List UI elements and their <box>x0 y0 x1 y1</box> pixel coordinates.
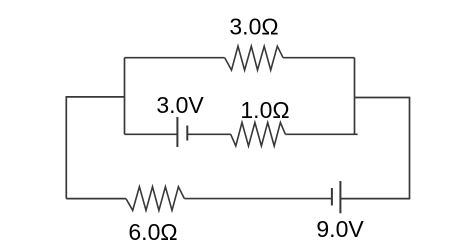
wire top branch right segment <box>283 57 354 59</box>
svg-text:1.0Ω: 1.0Ω <box>240 97 289 123</box>
svg-text:3.0V: 3.0V <box>156 92 204 118</box>
svg-text:9.0V: 9.0V <box>316 216 364 242</box>
wire middle branch center segment <box>187 133 230 135</box>
wire bottom left segment <box>66 198 126 200</box>
wire top branch left segment <box>125 57 225 59</box>
wire right stub to inner loop <box>355 97 411 99</box>
svg-text:6.0Ω: 6.0Ω <box>128 219 177 245</box>
wire left stub to inner loop <box>66 96 125 98</box>
battery B1 3.0V long plate <box>176 117 178 147</box>
resistor R-mid 1.0ohm zigzag <box>231 123 286 147</box>
wire middle branch left segment <box>125 133 178 135</box>
svg-text:3.0Ω: 3.0Ω <box>229 14 278 40</box>
wire outer right vertical <box>409 98 411 199</box>
wire outer left vertical <box>65 97 67 199</box>
resistor R-top 3.0ohm zigzag <box>225 46 283 70</box>
wire inner loop left vertical <box>124 58 126 135</box>
battery B1 3.0V short plate <box>186 126 188 141</box>
wire bottom middle segment <box>184 198 332 200</box>
wire bottom right segment <box>341 198 411 200</box>
wire middle branch right segment <box>285 133 357 135</box>
battery B2 9.0V long plate <box>339 181 341 213</box>
resistor R-bottom 6.0ohm zigzag <box>126 187 184 211</box>
wire inner loop right vertical <box>354 58 356 135</box>
battery B2 9.0V short plate <box>331 188 333 206</box>
